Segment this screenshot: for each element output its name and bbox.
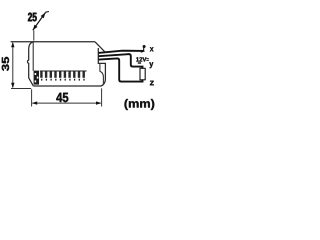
minus polarity mark (138, 62, 141, 63)
25 dimension diagonal line (33, 13, 46, 31)
wire 1 terminal dot (143, 45, 146, 48)
label z (150, 81, 154, 86)
module bottom edge (33, 79, 105, 86)
45 dimension arrow left (32, 101, 37, 104)
module right edge below wire exit (98, 48, 105, 79)
35 dimension line (12, 43, 14, 87)
35 dimension arrow up (11, 42, 14, 47)
25 dimension top dash (45, 11, 49, 14)
label y (149, 62, 153, 68)
label 25 (28, 13, 37, 22)
45 dimension right extension line (101, 88, 103, 106)
module inner seam line right (J hook) (100, 64, 104, 86)
45 dimension line (33, 102, 101, 104)
module inner seam line left (32, 42, 34, 70)
25 dimension upper arrowhead (41, 13, 46, 19)
label 35 (2, 57, 9, 71)
terminal block top line (40, 70, 87, 72)
label 12V= (136, 57, 146, 61)
terminal block pin dots row (41, 79, 85, 81)
45 dimension left extension line (31, 89, 33, 106)
resistor load (140, 68, 145, 80)
label x (150, 47, 154, 51)
45 dimension arrow right (96, 101, 101, 104)
wire 3 (bottom) (98, 58, 142, 81)
label 45 (56, 93, 68, 102)
module left edge outline (27, 42, 33, 86)
25 dimension extension tick (33, 30, 35, 40)
35 dimension bottom extension line (11, 88, 31, 90)
wire 1 arrowhead (141, 50, 145, 53)
wire 1 (top, +) (98, 51, 143, 53)
25 dimension lower arrowhead (33, 25, 38, 31)
terminal block comb teeth (40, 71, 85, 77)
module top edge with 35-dim top extension line (11, 41, 95, 43)
wire 2 (middle) (98, 54, 142, 68)
35 dimension arrow down (11, 83, 14, 88)
wire 1 terminal tick (143, 47, 145, 51)
module top-right chamfer edge (95, 42, 105, 52)
terminal block left end plate (34, 71, 39, 85)
label (mm) (125, 99, 155, 110)
